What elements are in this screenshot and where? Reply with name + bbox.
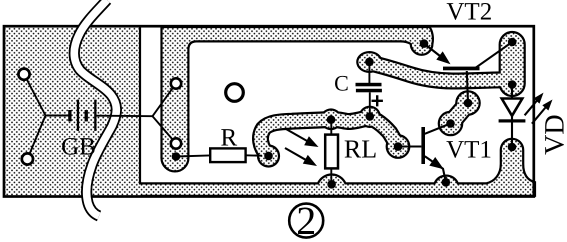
wire [330, 168, 332, 184]
node pad [18, 69, 29, 80]
wire: battery plus fan-out [153, 84, 177, 144]
wire: supply cable to GB [74, 0, 116, 216]
transistor VT1 [398, 146, 421, 148]
node board [4, 26, 534, 196]
arrow led2 [532, 108, 546, 124]
battery GB [68, 110, 71, 121]
wire: battery terminal leads [24, 74, 46, 159]
svg-text:RL: RL [344, 135, 377, 164]
wire [368, 62, 370, 83]
capacitor C [356, 83, 382, 87]
wire trace: left vertical band + top bus bar + VT2 emitter pad [162, 27, 433, 171]
wire: left block edge [139, 26, 141, 185]
node pad [171, 138, 181, 148]
wire trace: component snakes (fills) [261, 117, 398, 156]
node label2 [289, 204, 323, 238]
svg-text:VD: VD [540, 114, 567, 154]
wire [330, 120, 332, 135]
svg-text:R: R [220, 125, 237, 152]
svg-text:VT1: VT1 [446, 137, 492, 164]
arrow light2 [285, 148, 307, 160]
svg-text:VT2: VT2 [446, 0, 492, 26]
node dots [172, 152, 181, 161]
resistor RL [325, 135, 338, 169]
node hole [226, 84, 244, 102]
svg-text:C: C [334, 70, 349, 95]
svg-text:2: 2 [296, 198, 316, 242]
arrow led1 [525, 101, 537, 116]
wire trace: component snakes (outlines) [261, 117, 398, 156]
wire trace: bottom ground bus with RL and VT1 emitter pads and LED cathode trace [138, 139, 535, 196]
node pad [22, 153, 33, 164]
arrow light1 [286, 129, 308, 142]
svg-text:GB: GB [61, 134, 96, 161]
LED VD [511, 85, 513, 99]
transistor VT2 [424, 44, 447, 62]
wire [97, 115, 153, 118]
wire [176, 155, 210, 156]
node pad [171, 78, 181, 88]
wire [46, 115, 70, 117]
node board outline [4, 26, 534, 196]
wire [246, 154, 262, 156]
wire trace: left copper block [4, 26, 141, 196]
resistor R [210, 148, 245, 162]
